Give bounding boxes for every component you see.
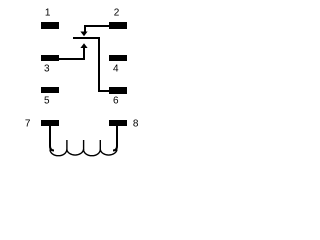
- coil winding arcs: [50, 150, 117, 156]
- svg-text:3: 3: [44, 63, 50, 74]
- svg-text:6: 6: [113, 95, 119, 106]
- terminal 7: [41, 120, 59, 126]
- coil cusp tick 2: [83, 140, 84, 150]
- wire vertical stub below up-arrow: [83, 47, 85, 60]
- terminal 8: [109, 120, 127, 126]
- svg-text:1: 1: [45, 7, 51, 18]
- coil cusp tick 3: [100, 140, 101, 150]
- wire vertical drop toward contact bar: [84, 25, 86, 32]
- svg-text:4: 4: [113, 63, 119, 74]
- wire from terminal 2 to NC contact drop: [84, 25, 109, 27]
- terminal 3: [41, 55, 59, 61]
- wire vertical from contact bar down to terminal 6: [98, 37, 100, 92]
- svg-text:7: 7: [25, 118, 31, 129]
- svg-text:8: 8: [133, 118, 139, 129]
- svg-text:5: 5: [44, 95, 50, 106]
- terminal 1: [41, 22, 59, 29]
- arrowhead down (NC contact): [80, 32, 87, 37]
- terminal 5: [41, 87, 59, 93]
- wire from terminal 3 to up-arrow stub: [59, 58, 85, 60]
- svg-text:2: 2: [114, 7, 120, 18]
- coil lead from terminal 8: [113, 126, 117, 151]
- terminal 6: [109, 87, 127, 94]
- wire from vertical to terminal 6: [98, 90, 109, 92]
- coil cusp tick 1: [66, 140, 67, 150]
- terminal 2: [109, 22, 127, 29]
- coil lead from terminal 7: [50, 126, 54, 151]
- arrowhead up (NO contact): [80, 43, 87, 48]
- terminal 4: [109, 55, 127, 61]
- contact bar (movable armature): [73, 37, 100, 39]
